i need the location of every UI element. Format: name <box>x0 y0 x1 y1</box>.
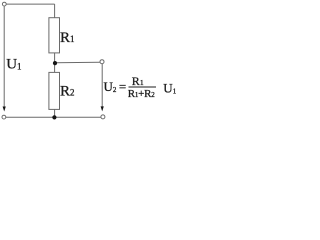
svg-text:U2=: U2= <box>104 79 127 94</box>
svg-text:R2: R2 <box>60 84 75 100</box>
svg-text:R1+R2: R1+R2 <box>128 88 155 100</box>
svg-text:U1: U1 <box>163 80 176 95</box>
svg-text:R1: R1 <box>60 30 75 46</box>
svg-text:U1: U1 <box>6 57 21 73</box>
svg-text:R1: R1 <box>132 74 144 88</box>
